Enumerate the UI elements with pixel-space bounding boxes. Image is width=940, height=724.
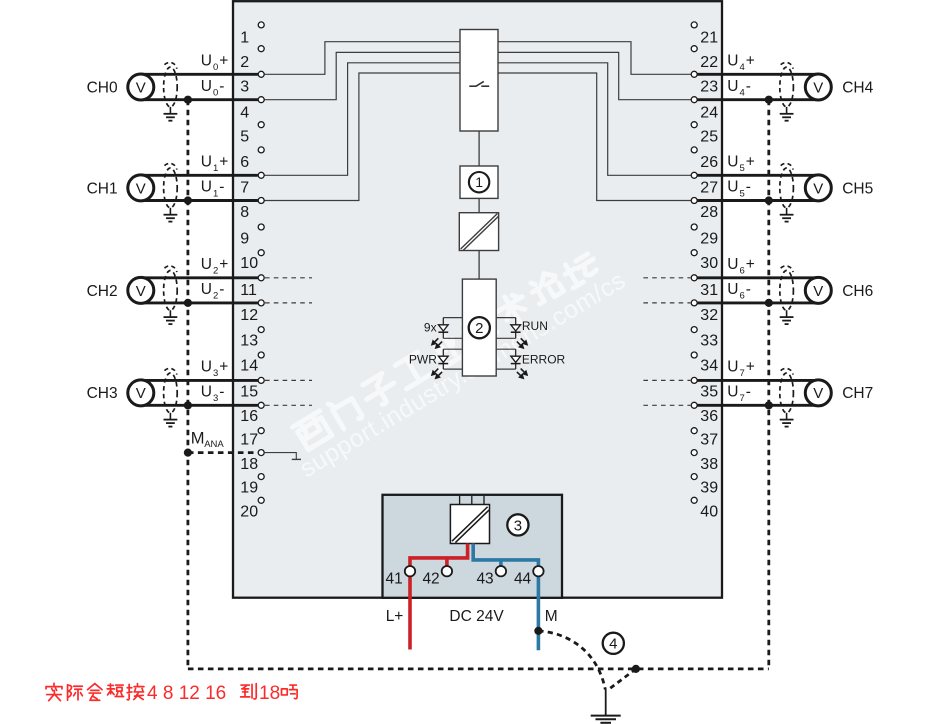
- svg-text:2: 2: [240, 54, 249, 71]
- svg-text:22: 22: [700, 54, 718, 71]
- svg-text:32: 32: [700, 307, 718, 324]
- svg-text:43: 43: [476, 570, 493, 587]
- svg-text:18: 18: [259, 683, 280, 704]
- svg-text:16: 16: [240, 408, 258, 425]
- svg-text:U: U: [727, 154, 738, 171]
- svg-text:+: +: [746, 154, 755, 171]
- svg-text:V: V: [136, 283, 146, 300]
- node junction left y=405.3: [184, 401, 192, 409]
- node — dot on dashed bus near ground: [632, 665, 640, 673]
- svg-text:1: 1: [240, 30, 249, 47]
- svg-text:+: +: [746, 359, 755, 376]
- svg-text:7: 7: [740, 368, 745, 379]
- svg-text:U: U: [201, 53, 212, 70]
- svg-text:U: U: [201, 359, 212, 376]
- svg-text:CH4: CH4: [842, 79, 873, 96]
- svg-text:CH1: CH1: [87, 180, 118, 197]
- svg-text:V: V: [813, 79, 823, 96]
- svg-text:U: U: [727, 256, 738, 273]
- wire — mux to function chain vertical: [478, 131, 480, 166]
- terminal 42: [442, 566, 452, 576]
- wire — blue M supply: [473, 544, 538, 566]
- node junction left y=452.6: [184, 449, 192, 457]
- node junction right y=200.5: [765, 196, 773, 204]
- ground (shield) CH4: [786, 107, 788, 114]
- svg-text:39: 39: [700, 479, 718, 496]
- wire — dashed diagonal from bus dot to ground: [609, 669, 636, 690]
- cable shield CH7: [780, 373, 794, 413]
- svg-text:U: U: [201, 179, 212, 196]
- wire — dashed bus right vertical: [767, 100, 770, 669]
- svg-text:+: +: [746, 53, 755, 70]
- svg-text:V: V: [136, 180, 146, 197]
- svg-text:-: -: [746, 78, 751, 95]
- svg-text:19: 19: [240, 479, 258, 496]
- svg-text:CH2: CH2: [87, 283, 118, 300]
- svg-text:1: 1: [213, 188, 218, 199]
- svg-text:U: U: [727, 384, 738, 401]
- svg-text:U: U: [201, 154, 212, 171]
- svg-text:U: U: [201, 256, 212, 273]
- processor block (2) with status LEDs: [462, 279, 496, 376]
- svg-text:ANA: ANA: [204, 439, 224, 450]
- svg-text:V: V: [813, 283, 823, 300]
- svg-text:21: 21: [700, 30, 718, 47]
- svg-text:9: 9: [240, 230, 249, 247]
- voltage source V CH2: [141, 276, 258, 279]
- svg-text:11: 11: [240, 282, 257, 299]
- svg-text:DC 24V: DC 24V: [449, 608, 504, 625]
- svg-text:3: 3: [514, 517, 522, 534]
- svg-text:3: 3: [240, 78, 249, 95]
- svg-text:5: 5: [740, 188, 745, 199]
- svg-text:+: +: [219, 154, 228, 171]
- svg-text:10: 10: [240, 255, 258, 272]
- svg-text:25: 25: [700, 128, 718, 145]
- circled 3 (internal supply): [507, 514, 528, 535]
- terminal 44: [533, 566, 543, 576]
- wire — thin internal connections from terminals to multiplexer: [265, 42, 461, 75]
- voltage source V CH0: [141, 73, 258, 76]
- wire — red L+ supply: [410, 544, 468, 567]
- svg-text:ERROR: ERROR: [522, 353, 566, 367]
- cable shield CH3: [164, 373, 178, 413]
- cable shield CH2: [164, 271, 178, 311]
- svg-text:+: +: [219, 359, 228, 376]
- svg-text:-: -: [746, 281, 751, 298]
- svg-text:U: U: [727, 281, 738, 298]
- node junction right y=302.9: [765, 299, 773, 307]
- svg-text:U: U: [201, 78, 212, 95]
- svg-text:27: 27: [700, 179, 718, 196]
- multiplexer box with switch symbol: [460, 30, 498, 132]
- svg-text:4: 4: [740, 88, 745, 99]
- voltage source V CH3: [141, 379, 258, 382]
- module body (analog input module outline): [233, 1, 722, 598]
- svg-text:0: 0: [213, 88, 218, 99]
- ground (shield) CH7: [786, 413, 788, 420]
- svg-text:-: -: [219, 281, 224, 298]
- svg-text:RUN: RUN: [522, 319, 548, 333]
- svg-text:M: M: [545, 608, 558, 625]
- svg-text:3: 3: [213, 368, 218, 379]
- svg-text:8: 8: [240, 204, 249, 221]
- node junction right y=99.7: [765, 96, 773, 104]
- svg-text:CH0: CH0: [87, 79, 118, 96]
- ground (shield) CH6: [786, 310, 788, 317]
- svg-text:15: 15: [240, 383, 258, 400]
- svg-text:-: -: [219, 179, 224, 196]
- svg-text:U: U: [201, 281, 212, 298]
- cable shield CH6: [780, 271, 794, 311]
- node junction left y=99.7: [184, 96, 192, 104]
- ground (shield) CH1: [169, 208, 171, 215]
- svg-text:6: 6: [740, 291, 745, 302]
- svg-text:CH5: CH5: [842, 180, 873, 197]
- voltage source V CH5: [698, 174, 819, 177]
- svg-text:7: 7: [740, 393, 745, 404]
- circled 4 (equipotential bonding): [603, 633, 624, 654]
- svg-text:L+: L+: [386, 608, 404, 625]
- wire — dashed bus bottom horizontal: [188, 668, 769, 671]
- svg-text:U: U: [727, 78, 738, 95]
- svg-text:-: -: [219, 78, 224, 95]
- watermark: [279, 240, 630, 483]
- cable shield CH5: [780, 168, 794, 208]
- ground (shield) CH3: [169, 413, 171, 420]
- svg-text:5: 5: [740, 163, 745, 174]
- svg-text:18: 18: [240, 456, 258, 473]
- node junction left y=200.5: [184, 196, 192, 204]
- ground (shield) CH0: [169, 107, 171, 114]
- svg-text:U: U: [727, 359, 738, 376]
- red annotation text (Chinese): [46, 683, 62, 700]
- terminal 18 internal M-ANA contact: [264, 453, 296, 460]
- terminal 41: [405, 566, 415, 576]
- svg-text:5: 5: [240, 128, 249, 145]
- svg-text:41: 41: [386, 570, 403, 587]
- svg-text:-: -: [746, 384, 751, 401]
- node junction left y=302.9: [184, 299, 192, 307]
- voltage source V CH6: [698, 276, 819, 279]
- svg-text:V: V: [136, 385, 146, 402]
- svg-text:6: 6: [740, 266, 745, 277]
- DC/DC converter box with pins: [450, 496, 489, 544]
- svg-text:4 8 12 16: 4 8 12 16: [147, 683, 226, 704]
- svg-text:PWR: PWR: [409, 353, 437, 367]
- svg-text:26: 26: [700, 154, 718, 171]
- ground (shield) CH5: [786, 208, 788, 215]
- svg-text:6: 6: [240, 154, 249, 171]
- op-amp block (1) — measuring amplifier: [460, 166, 498, 198]
- svg-text:35: 35: [700, 383, 718, 400]
- cable shield CH0: [164, 67, 178, 107]
- svg-text:29: 29: [700, 230, 718, 247]
- svg-text:40: 40: [700, 503, 718, 520]
- terminal 43: [496, 566, 506, 576]
- svg-text:20: 20: [240, 503, 258, 520]
- svg-text:CH7: CH7: [842, 385, 873, 402]
- svg-text:23: 23: [700, 78, 718, 95]
- svg-text:2: 2: [213, 291, 218, 302]
- svg-text:3: 3: [213, 393, 218, 404]
- wire — dashed branch to terminal 18 (M-ANA): [188, 451, 259, 454]
- svg-text:V: V: [813, 385, 823, 402]
- cable shield CH1: [164, 168, 178, 208]
- svg-text:44: 44: [514, 570, 532, 587]
- svg-text:7: 7: [240, 179, 249, 196]
- node — M junction dot on blue wire: [534, 627, 542, 635]
- svg-text:4: 4: [240, 104, 249, 121]
- voltage source V CH7: [698, 379, 819, 382]
- voltage source V CH4: [698, 73, 819, 76]
- svg-text:0: 0: [213, 62, 218, 73]
- wire — dashed curve from M to ground: [538, 631, 605, 690]
- svg-text:U: U: [727, 53, 738, 70]
- svg-text:-: -: [219, 384, 224, 401]
- svg-text:4: 4: [609, 636, 617, 653]
- svg-text:24: 24: [700, 104, 718, 121]
- svg-text:CH6: CH6: [842, 283, 873, 300]
- svg-text:1: 1: [475, 174, 483, 190]
- svg-text:2: 2: [213, 266, 218, 277]
- svg-text:33: 33: [700, 332, 718, 349]
- svg-text:37: 37: [700, 432, 718, 449]
- svg-text:36: 36: [700, 408, 718, 425]
- svg-text:9x: 9x: [424, 321, 437, 335]
- ADC box U-AD (analog-to-digital converter): [459, 213, 498, 251]
- svg-text:42: 42: [422, 570, 439, 587]
- svg-text:12: 12: [240, 307, 258, 324]
- svg-text:38: 38: [700, 456, 718, 473]
- svg-text:13: 13: [240, 332, 258, 349]
- svg-text:+: +: [219, 256, 228, 273]
- node junction right y=405.3: [765, 401, 773, 409]
- svg-text:30: 30: [700, 255, 718, 272]
- svg-text:1: 1: [213, 163, 218, 174]
- svg-text:14: 14: [240, 357, 258, 374]
- svg-text:2: 2: [475, 320, 483, 337]
- wire — dashed internal stubs (CH2/CH3/CH6/CH7): [265, 277, 312, 279]
- svg-text:31: 31: [700, 282, 718, 299]
- svg-text:U: U: [727, 179, 738, 196]
- svg-text:17: 17: [240, 432, 258, 449]
- svg-text:CH3: CH3: [87, 385, 118, 402]
- svg-text:V: V: [813, 180, 823, 197]
- power supply box: [383, 495, 563, 598]
- svg-text:U: U: [201, 384, 212, 401]
- svg-text:28: 28: [700, 204, 718, 221]
- svg-text:M: M: [191, 430, 205, 448]
- svg-text:34: 34: [700, 357, 718, 374]
- ground (shield) CH2: [169, 310, 171, 317]
- svg-text:+: +: [219, 53, 228, 70]
- svg-text:+: +: [746, 256, 755, 273]
- svg-text:4: 4: [740, 62, 745, 73]
- voltage source V CH1: [141, 174, 258, 177]
- ground — earth symbol bottom: [605, 690, 607, 716]
- svg-text:V: V: [136, 79, 146, 96]
- svg-text:-: -: [746, 179, 751, 196]
- wire — dashed M-ANA bus left vertical: [186, 100, 189, 669]
- cable shield CH4: [780, 67, 794, 107]
